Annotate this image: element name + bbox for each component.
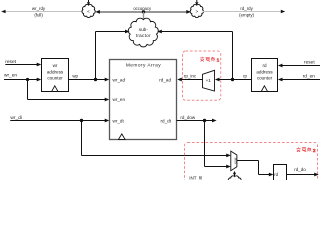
label change-point-1 (red kanji) bbox=[200, 57, 219, 64]
wire into comparator U2 top bbox=[195, 0, 198, 5]
node occupy junction bbox=[142, 10, 145, 20]
svg-text:address: address bbox=[47, 69, 64, 74]
wire rd_dow memory data output bbox=[177, 115, 217, 122]
counter box U4 wr address counter bbox=[42, 59, 69, 92]
wire wr_en left input bbox=[4, 72, 41, 81]
svg-text:(empty): (empty) bbox=[239, 13, 254, 18]
svg-text:rd: rd bbox=[262, 63, 267, 68]
wire wp counter output to memory wr_ad bbox=[69, 73, 110, 81]
svg-text:wr_dt: wr_dt bbox=[113, 119, 125, 124]
clock triangle of memory box bbox=[119, 134, 126, 140]
node wp junction bbox=[94, 78, 97, 81]
svg-text:INT_fil: INT_fil bbox=[189, 175, 202, 180]
svg-text:<: < bbox=[87, 9, 90, 14]
svg-text:rd_rdy: rd_rdy bbox=[240, 6, 253, 11]
svg-text:>: > bbox=[195, 9, 198, 14]
svg-text:Memory Array: Memory Array bbox=[126, 63, 161, 69]
wire wr_en branch to memory wr_en port bbox=[28, 80, 110, 102]
svg-text:wp: wp bbox=[72, 73, 78, 78]
wire rp to subtractor right input bbox=[157, 30, 232, 80]
node rd_dow junction bbox=[203, 119, 206, 122]
wire mux output to rd register bbox=[237, 161, 274, 177]
wire reset right input bbox=[278, 59, 320, 67]
subtractor cloud U3 bbox=[128, 18, 158, 47]
red dashed change box 1 bbox=[183, 51, 221, 100]
wire rd_en right input bbox=[278, 74, 320, 82]
svg-text:(full): (full) bbox=[34, 13, 43, 18]
wire reset left input bbox=[5, 59, 41, 67]
wire occupy bus (thick gray) bbox=[95, 10, 191, 14]
memory box U5 Memory Array bbox=[110, 60, 177, 140]
svg-text:rd: rd bbox=[274, 172, 278, 177]
wire rd_do final output bbox=[287, 167, 319, 176]
red dashed change box 2 bbox=[185, 143, 318, 191]
label change-point-2 (red kanji) bbox=[297, 147, 316, 154]
clock triangle of rd counter bbox=[261, 86, 267, 92]
wire wp to subtractor left input bbox=[96, 30, 130, 80]
node wr_di junction bbox=[80, 119, 83, 122]
svg-text:rp: rp bbox=[243, 74, 247, 79]
svg-text:rd_do: rd_do bbox=[294, 167, 306, 172]
svg-text:wr_en: wr_en bbox=[4, 72, 17, 78]
svg-text:rd_dow: rd_dow bbox=[180, 115, 196, 120]
wire wr_di left data input bbox=[10, 115, 109, 122]
wire into comparator U1 top bbox=[87, 0, 90, 5]
svg-text:wr_rdy: wr_rdy bbox=[32, 6, 46, 11]
wire wr_di branch to mux input 0 bbox=[82, 121, 231, 158]
mux U8 trapezoid bbox=[231, 151, 238, 171]
comparator cloud U1 "<" (full check) bbox=[82, 4, 95, 17]
svg-text:rd_ad: rd_ad bbox=[159, 77, 171, 82]
svg-text:rd_en: rd_en bbox=[303, 74, 316, 80]
wire rp_inc incrementer output to memory rd_ad bbox=[177, 74, 202, 82]
compare cloud U9 (cropped at bottom) bbox=[228, 176, 242, 189]
wire rd_dow branch to mux input 1 bbox=[205, 121, 231, 169]
incrementer U6 +1 trapezoid bbox=[203, 70, 215, 91]
svg-text:counter: counter bbox=[47, 76, 63, 81]
wire mux select from compare cloud bbox=[233, 171, 236, 177]
node wr_en junction bbox=[26, 78, 29, 81]
svg-text:rd_dt: rd_dt bbox=[161, 119, 172, 124]
node rp junction bbox=[231, 78, 234, 81]
svg-text:sub-: sub- bbox=[139, 27, 149, 32]
label wr_rdy (full) bbox=[32, 6, 46, 18]
svg-text:2: 2 bbox=[313, 148, 316, 154]
svg-text:address: address bbox=[256, 69, 273, 74]
wire rp rd counter output to incrementer bbox=[215, 74, 252, 82]
svg-text:wr_en: wr_en bbox=[113, 97, 126, 102]
comparator cloud U2 ">" (empty check) bbox=[190, 4, 203, 17]
svg-text:wr: wr bbox=[53, 63, 58, 68]
svg-text:tractor: tractor bbox=[136, 33, 151, 38]
counter box U7 rd address counter bbox=[252, 59, 278, 92]
wire wr_rdy output (light gray) bbox=[1, 10, 83, 13]
svg-text:rp_inc: rp_inc bbox=[184, 74, 197, 79]
svg-text:+1: +1 bbox=[206, 78, 212, 83]
label rd_rdy (empty) bbox=[239, 6, 254, 18]
wire rd_rdy output (light gray) bbox=[203, 10, 285, 13]
svg-text:wr_ad: wr_ad bbox=[113, 77, 126, 82]
svg-text:counter: counter bbox=[257, 76, 273, 81]
svg-text:reset: reset bbox=[304, 59, 315, 65]
svg-text:1: 1 bbox=[217, 57, 220, 63]
clock triangle of wr counter bbox=[52, 86, 58, 92]
register box U10 rd (output FF) bbox=[274, 165, 287, 182]
